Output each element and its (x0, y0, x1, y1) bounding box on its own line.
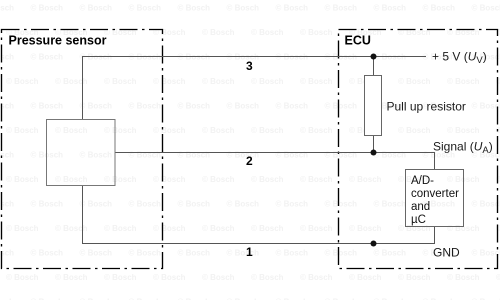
svg-text:© Bosch: © Bosch (104, 175, 137, 184)
svg-text:© Bosch: © Bosch (349, 273, 382, 282)
svg-text:© Bosch: © Bosch (325, 249, 358, 258)
svg-text:Pressure sensor: Pressure sensor (9, 34, 107, 48)
svg-text:© Bosch: © Bosch (398, 273, 431, 282)
svg-text:© Bosch: © Bosch (129, 102, 162, 111)
svg-text:© Bosch: © Bosch (31, 4, 64, 13)
svg-text:© Bosch: © Bosch (55, 126, 88, 135)
svg-text:GND: GND (433, 246, 460, 260)
svg-text:µC: µC (411, 214, 426, 226)
svg-text:© Bosch: © Bosch (447, 126, 480, 135)
svg-text:© Bosch: © Bosch (374, 4, 407, 13)
svg-text:© Bosch: © Bosch (80, 151, 113, 160)
svg-text:© Bosch: © Bosch (153, 77, 186, 86)
svg-text:© Bosch: © Bosch (227, 151, 260, 160)
svg-text:ECU: ECU (345, 34, 371, 48)
svg-text:© Bosch: © Bosch (300, 126, 333, 135)
svg-text:© Bosch: © Bosch (0, 151, 14, 160)
svg-text:© Bosch: © Bosch (178, 151, 211, 160)
svg-text:© Bosch: © Bosch (6, 126, 39, 135)
svg-text:© Bosch: © Bosch (0, 4, 14, 13)
svg-text:© Bosch: © Bosch (325, 151, 358, 160)
svg-text:© Bosch: © Bosch (325, 200, 358, 209)
svg-text:© Bosch: © Bosch (472, 4, 500, 13)
svg-text:© Bosch: © Bosch (398, 77, 431, 86)
svg-text:© Bosch: © Bosch (129, 151, 162, 160)
svg-text:© Bosch: © Bosch (202, 28, 235, 37)
svg-text:© Bosch: © Bosch (31, 249, 64, 258)
svg-text:3: 3 (246, 59, 253, 73)
svg-text:converter: converter (411, 188, 459, 200)
svg-text:© Bosch: © Bosch (374, 249, 407, 258)
svg-text:© Bosch: © Bosch (80, 102, 113, 111)
svg-text:© Bosch: © Bosch (496, 273, 500, 282)
svg-text:© Bosch: © Bosch (349, 224, 382, 233)
svg-text:© Bosch: © Bosch (55, 273, 88, 282)
svg-text:© Bosch: © Bosch (178, 200, 211, 209)
svg-text:© Bosch: © Bosch (104, 273, 137, 282)
svg-text:© Bosch: © Bosch (251, 175, 284, 184)
svg-text:© Bosch: © Bosch (202, 175, 235, 184)
svg-text:© Bosch: © Bosch (423, 4, 456, 13)
svg-text:© Bosch: © Bosch (447, 273, 480, 282)
svg-text:© Bosch: © Bosch (325, 4, 358, 13)
svg-text:© Bosch: © Bosch (129, 200, 162, 209)
svg-text:© Bosch: © Bosch (251, 224, 284, 233)
svg-text:© Bosch: © Bosch (251, 126, 284, 135)
svg-text:1: 1 (246, 245, 253, 259)
svg-text:© Bosch: © Bosch (129, 4, 162, 13)
svg-text:© Bosch: © Bosch (447, 77, 480, 86)
svg-text:© Bosch: © Bosch (300, 224, 333, 233)
svg-text:© Bosch: © Bosch (472, 249, 500, 258)
svg-text:© Bosch: © Bosch (6, 175, 39, 184)
svg-text:© Bosch: © Bosch (374, 200, 407, 209)
svg-text:2: 2 (246, 154, 253, 168)
svg-text:© Bosch: © Bosch (300, 28, 333, 37)
svg-text:© Bosch: © Bosch (104, 224, 137, 233)
svg-text:© Bosch: © Bosch (202, 273, 235, 282)
svg-text:© Bosch: © Bosch (227, 249, 260, 258)
svg-text:© Bosch: © Bosch (80, 200, 113, 209)
svg-text:© Bosch: © Bosch (153, 273, 186, 282)
svg-text:© Bosch: © Bosch (153, 175, 186, 184)
svg-text:© Bosch: © Bosch (6, 77, 39, 86)
svg-text:© Bosch: © Bosch (472, 200, 500, 209)
svg-text:© Bosch: © Bosch (300, 273, 333, 282)
svg-text:© Bosch: © Bosch (472, 102, 500, 111)
svg-text:Pull up resistor: Pull up resistor (387, 100, 466, 114)
svg-text:© Bosch: © Bosch (202, 224, 235, 233)
svg-text:© Bosch: © Bosch (227, 102, 260, 111)
svg-text:© Bosch: © Bosch (31, 102, 64, 111)
svg-text:© Bosch: © Bosch (251, 77, 284, 86)
svg-text:© Bosch: © Bosch (300, 77, 333, 86)
svg-text:© Bosch: © Bosch (374, 151, 407, 160)
svg-text:© Bosch: © Bosch (178, 102, 211, 111)
svg-text:© Bosch: © Bosch (251, 28, 284, 37)
svg-text:© Bosch: © Bosch (398, 126, 431, 135)
svg-text:© Bosch: © Bosch (80, 249, 113, 258)
svg-text:© Bosch: © Bosch (178, 249, 211, 258)
svg-text:© Bosch: © Bosch (202, 77, 235, 86)
svg-text:© Bosch: © Bosch (325, 102, 358, 111)
svg-text:© Bosch: © Bosch (31, 200, 64, 209)
svg-text:© Bosch: © Bosch (104, 77, 137, 86)
svg-text:© Bosch: © Bosch (276, 102, 309, 111)
svg-text:© Bosch: © Bosch (349, 175, 382, 184)
svg-text:© Bosch: © Bosch (251, 273, 284, 282)
svg-text:© Bosch: © Bosch (6, 273, 39, 282)
svg-text:© Bosch: © Bosch (300, 175, 333, 184)
svg-text:© Bosch: © Bosch (129, 249, 162, 258)
svg-text:© Bosch: © Bosch (202, 126, 235, 135)
svg-text:© Bosch: © Bosch (276, 4, 309, 13)
svg-text:© Bosch: © Bosch (153, 126, 186, 135)
svg-text:© Bosch: © Bosch (227, 200, 260, 209)
svg-text:© Bosch: © Bosch (31, 53, 64, 62)
svg-text:© Bosch: © Bosch (276, 151, 309, 160)
svg-text:and: and (411, 201, 430, 213)
svg-text:© Bosch: © Bosch (80, 4, 113, 13)
svg-text:© Bosch: © Bosch (276, 249, 309, 258)
svg-text:© Bosch: © Bosch (276, 200, 309, 209)
svg-text:© Bosch: © Bosch (153, 224, 186, 233)
svg-text:© Bosch: © Bosch (104, 126, 137, 135)
svg-text:© Bosch: © Bosch (178, 4, 211, 13)
svg-text:© Bosch: © Bosch (6, 224, 39, 233)
svg-text:© Bosch: © Bosch (55, 175, 88, 184)
svg-text:A/D-: A/D- (411, 175, 434, 187)
svg-text:© Bosch: © Bosch (227, 4, 260, 13)
